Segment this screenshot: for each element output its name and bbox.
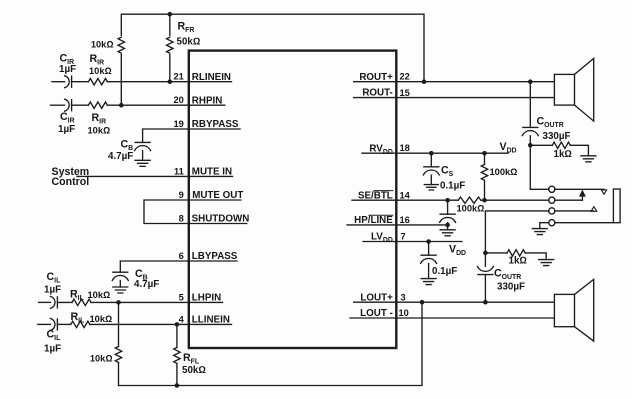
svg-text:CS: CS <box>441 165 454 179</box>
open triangle (up) at contact3 wire end <box>591 207 597 212</box>
svg-text:MUTE IN: MUTE IN <box>192 167 232 178</box>
node : pin5 junction <box>116 300 121 305</box>
jack contact 1 (tip) <box>549 186 555 192</box>
resistor 10k (top-left vertical) <box>117 36 126 54</box>
svg-text:SHUTDOWN: SHUTDOWN <box>192 214 250 225</box>
wire down to jack tip <box>530 145 549 189</box>
capacitor 0.1uF (LVDD) <box>428 242 430 256</box>
svg-text:1kΩ: 1kΩ <box>554 149 572 160</box>
svg-text:RIL: RIL <box>70 289 84 303</box>
ground (HP/LINE) <box>440 230 455 236</box>
switch arrow (filled, up) <box>579 190 586 197</box>
ground (CB left) <box>113 287 128 293</box>
resistor RFL 50k vertical <box>176 324 178 347</box>
svg-text:1kΩ: 1kΩ <box>509 255 527 266</box>
svg-text:SE/BTL: SE/BTL <box>358 190 393 201</box>
svg-text:330µF: 330µF <box>543 131 571 142</box>
capacitor COUTR 330uF (right) <box>529 82 531 128</box>
wire HP/LINE pin16 to cap node <box>396 224 447 226</box>
svg-text:10: 10 <box>399 308 409 318</box>
node CS tap <box>429 151 434 156</box>
svg-text:9: 9 <box>179 190 184 200</box>
capacitor (SE/BTL to HP/LINE) <box>447 200 449 214</box>
wire LHPIN input row y=302.4 <box>39 301 51 303</box>
pin name HP/LINE with overline <box>347 224 396 226</box>
pin name LLINEIN <box>189 323 232 325</box>
svg-text:Control: Control <box>52 176 90 188</box>
ground (CS) <box>424 185 438 190</box>
svg-text:10kΩ: 10kΩ <box>90 314 113 324</box>
svg-text:RIR: RIR <box>92 112 107 126</box>
pin name LVDD <box>363 241 396 243</box>
svg-text:RFR: RFR <box>178 21 195 35</box>
wire MUTE IN pin11 <box>77 175 189 177</box>
capacitor CB 4.7uF (right bypass) <box>135 141 150 143</box>
svg-text:15: 15 <box>400 88 410 98</box>
svg-text:0.1µF: 0.1µF <box>432 266 457 277</box>
pin name ROUT- <box>354 97 397 99</box>
wire : top rail y=14 <box>121 14 424 105</box>
wire RLINEIN input row y=81.7 <box>52 81 65 83</box>
svg-text:COUTR: COUTR <box>494 267 521 281</box>
svg-text:MUTE OUT: MUTE OUT <box>192 190 243 201</box>
node SE/BTL cap tap <box>445 198 450 203</box>
svg-text:CIL: CIL <box>47 271 61 285</box>
wire RBYPASS pin19 <box>143 129 189 142</box>
pin name LBYPASS <box>189 260 237 262</box>
jack contact 3 <box>549 208 555 214</box>
svg-text:7: 7 <box>401 232 406 242</box>
wire up to jack contact3 <box>485 211 549 253</box>
svg-text:LVDD: LVDD <box>371 232 393 245</box>
ground (CB right) <box>135 160 150 166</box>
svg-text:RHPIN: RHPIN <box>192 95 222 106</box>
svg-text:11: 11 <box>174 167 184 177</box>
svg-text:1µF: 1µF <box>44 285 61 296</box>
wire contact4 to jack body <box>555 222 614 224</box>
node feedback junction <box>420 300 425 305</box>
node COUTR/1k junction <box>528 143 533 148</box>
speaker (left channel) <box>554 294 574 326</box>
node 100k tap <box>482 151 487 156</box>
svg-text:50kΩ: 50kΩ <box>182 365 206 376</box>
svg-text:RIL: RIL <box>71 311 85 325</box>
node top rail to ROUT+ <box>422 79 427 84</box>
wire LOUT- to speaker <box>396 317 554 319</box>
svg-text:COUTR: COUTR <box>537 116 564 130</box>
capacitor CIL (1uF) row3 <box>50 296 55 308</box>
svg-text:10kΩ: 10kΩ <box>88 290 111 300</box>
svg-text:10kΩ: 10kΩ <box>91 40 114 50</box>
wire MUTE OUT pin9 to SHUTDOWN pin8 bracket <box>144 200 189 224</box>
resistor RIL 10k row4 <box>71 321 90 327</box>
wire contact4 to ground <box>540 223 549 229</box>
resistor 1k (right) to ground <box>530 144 552 146</box>
svg-text:16: 16 <box>400 215 410 225</box>
pin name SHUTDOWN <box>189 223 247 225</box>
wire LOUT+ to speaker <box>396 301 554 303</box>
svg-text:10kΩ: 10kΩ <box>88 126 111 136</box>
jack body (sleeve bar) <box>613 189 620 223</box>
svg-text:1µF: 1µF <box>59 64 76 75</box>
pin name RLINEIN <box>189 81 232 83</box>
pin name RVDD <box>362 152 396 154</box>
svg-text:CIR: CIR <box>60 111 75 125</box>
svg-text:50kΩ: 50kΩ <box>177 37 201 48</box>
pin name RHPIN <box>189 104 225 106</box>
pin name MUTE IN <box>189 175 233 177</box>
node : RFR top junction <box>168 12 173 17</box>
resistor 100k horizontal <box>458 197 481 203</box>
svg-text:8: 8 <box>179 214 184 224</box>
svg-text:20: 20 <box>173 95 183 105</box>
pin name SE/BTL with overline <box>352 199 396 201</box>
svg-text:3: 3 <box>401 293 406 303</box>
svg-text:LHPIN: LHPIN <box>192 293 221 304</box>
wire : bottom feedback rail <box>119 302 423 385</box>
svg-text:100kΩ: 100kΩ <box>457 204 485 214</box>
op-amp U1 : main amplifier IC body <box>189 51 396 348</box>
svg-text:330µF: 330µF <box>497 281 525 292</box>
svg-text:RFL: RFL <box>183 352 199 366</box>
capacitor CS 0.1uF <box>430 153 432 167</box>
svg-text:14: 14 <box>400 191 411 201</box>
resistor RIR 10k row2 <box>88 102 107 108</box>
resistor RIL 10k row3 <box>72 299 91 305</box>
svg-text:LOUT -: LOUT - <box>360 308 393 319</box>
open triangle (down) at contact1 wire end <box>601 190 606 194</box>
wire SE/BTL pin14 <box>396 199 458 201</box>
resistor 100k vertical <box>484 153 486 164</box>
svg-text:VDD: VDD <box>449 243 466 257</box>
node : pin20/10k junction <box>119 103 124 108</box>
wire ROUT+ to speaker <box>396 81 554 83</box>
svg-text:ROUT-: ROUT- <box>362 88 392 99</box>
svg-text:RIR: RIR <box>90 53 105 67</box>
capacitor CIL (1uF) row4 <box>50 318 55 330</box>
svg-text:VDD: VDD <box>500 141 517 155</box>
svg-text:4.7µF: 4.7µF <box>134 279 159 290</box>
svg-text:1µF: 1µF <box>44 344 61 355</box>
node : pin4/RFL junction <box>175 322 180 327</box>
wire contact1 to NC mark <box>555 188 604 190</box>
resistor 1k (left) to ground <box>485 252 507 254</box>
node COUTR(left) tap <box>483 300 488 305</box>
wire RVDD pin18 <box>396 152 508 154</box>
node 0.1uF tap <box>426 239 431 244</box>
svg-text:10kΩ: 10kΩ <box>90 354 113 364</box>
node COUTR tap <box>528 79 533 84</box>
resistor 10k (bottom-left vertical) <box>118 302 120 346</box>
resistor RFR 50k vertical <box>169 14 171 82</box>
svg-text:ROUT+: ROUT+ <box>359 72 393 83</box>
wire LBYPASS pin6 <box>120 261 189 272</box>
pin name RBYPASS <box>189 128 240 130</box>
svg-text:LLINEIN: LLINEIN <box>192 315 230 326</box>
svg-text:22: 22 <box>400 72 410 82</box>
svg-text:6: 6 <box>179 251 184 261</box>
pin name ROUT+ <box>354 81 397 83</box>
svg-text:4.7µF: 4.7µF <box>108 151 133 162</box>
pin name LOUT- <box>350 317 396 319</box>
svg-text:5: 5 <box>179 293 184 303</box>
wire SE/BTL to jack contact2 <box>481 199 549 201</box>
svg-text:1µF: 1µF <box>58 124 75 135</box>
pin name LOUT+ <box>354 301 397 303</box>
pin name LHPIN <box>189 301 223 303</box>
pin name MUTE OUT <box>189 199 241 201</box>
resistor RIR 10k row1 <box>88 79 107 85</box>
svg-text:21: 21 <box>173 72 183 82</box>
jack contact 2 <box>549 197 555 203</box>
svg-text:RBYPASS: RBYPASS <box>192 119 239 130</box>
svg-text:10kΩ: 10kΩ <box>89 66 112 76</box>
svg-text:CIL: CIL <box>47 329 61 343</box>
svg-text:HP/LINE: HP/LINE <box>354 215 393 226</box>
svg-text:4: 4 <box>179 315 185 325</box>
svg-text:0.1µF: 0.1µF <box>440 181 465 192</box>
capacitor CIR (1uF) row1 <box>65 76 70 88</box>
node SE/BTL junction <box>482 198 487 203</box>
svg-text:19: 19 <box>173 119 183 129</box>
node HP/LINE junction <box>445 223 450 228</box>
node : RFL bottom junction <box>175 383 180 388</box>
svg-text:100kΩ: 100kΩ <box>490 167 518 177</box>
jack contact 4 (sleeve) <box>549 220 555 226</box>
ground (LVDD cap) <box>421 279 436 285</box>
speaker (right channel) <box>554 74 574 105</box>
capacitor CIR (1uF) row2 <box>65 99 70 111</box>
node : pin21/RFR junction <box>168 79 173 84</box>
svg-text:RLINEIN: RLINEIN <box>192 72 231 83</box>
capacitor COUTR 330uF (left) <box>484 275 486 303</box>
node COUTR(left)/1k junction <box>483 251 488 256</box>
svg-text:LBYPASS: LBYPASS <box>192 251 238 262</box>
wire ROUT- to speaker <box>396 97 554 99</box>
wire LVDD pin7 <box>396 241 462 243</box>
wire RHPIN input row y=105.2 <box>50 104 64 106</box>
svg-text:RVDD: RVDD <box>369 143 392 156</box>
capacitor CB 4.7uF (left bypass) <box>113 271 128 273</box>
svg-text:18: 18 <box>400 143 410 153</box>
svg-text:LOUT+: LOUT+ <box>360 292 393 303</box>
wire LLINEIN input row y=324.4 <box>38 323 51 325</box>
